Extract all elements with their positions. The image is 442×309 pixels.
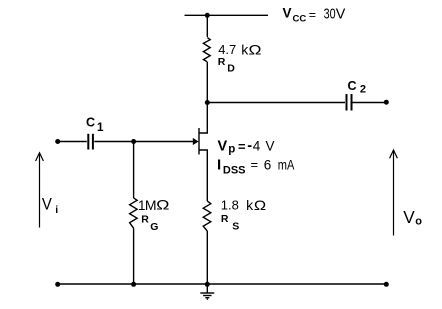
node drain junction bbox=[205, 100, 210, 105]
svg-text:V: V bbox=[218, 138, 228, 154]
label Vo bbox=[403, 207, 422, 227]
label IDSS = 6 mA bbox=[217, 157, 294, 177]
svg-text:S: S bbox=[232, 220, 239, 232]
transistor Q1 JFET channel bar bbox=[198, 128, 200, 155]
wire VCC to RD bbox=[206, 15, 208, 37]
wire RS to ground rail bbox=[206, 231, 208, 284]
svg-text:V: V bbox=[283, 6, 292, 21]
svg-text:C: C bbox=[86, 115, 95, 129]
svg-text:DSS: DSS bbox=[223, 165, 246, 177]
svg-text:mA: mA bbox=[278, 158, 295, 173]
svg-text:V: V bbox=[403, 207, 415, 227]
svg-text:V: V bbox=[266, 138, 275, 153]
svg-text:V: V bbox=[42, 195, 52, 213]
svg-text:Ω: Ω bbox=[254, 197, 266, 213]
node VCC junction bbox=[205, 13, 210, 18]
svg-text:M: M bbox=[145, 197, 157, 213]
node input terminal bbox=[55, 139, 60, 144]
svg-text:2: 2 bbox=[360, 84, 366, 96]
resistor RG bbox=[130, 198, 138, 228]
svg-text:C: C bbox=[348, 79, 357, 93]
svg-text:k: k bbox=[246, 197, 254, 213]
wire bottom ground rail bbox=[58, 283, 387, 285]
svg-text:D: D bbox=[227, 63, 235, 75]
wire C1 to gate bbox=[94, 141, 193, 143]
svg-text:V: V bbox=[336, 6, 346, 23]
svg-text:R: R bbox=[218, 56, 226, 68]
label C1 designator bbox=[86, 115, 104, 134]
node bottom RG junction bbox=[131, 282, 136, 287]
transistor Q1 JFET drain lead bbox=[199, 103, 207, 134]
transistor Q1 JFET source lead bbox=[199, 150, 207, 201]
wire input to C1 bbox=[58, 141, 87, 143]
svg-text:4: 4 bbox=[253, 138, 261, 153]
arrow Vo output indicator bbox=[390, 150, 398, 236]
node output terminal bbox=[384, 100, 389, 105]
wire RG to ground rail bbox=[133, 228, 135, 284]
svg-text:o: o bbox=[415, 216, 422, 228]
label RD designator bbox=[218, 56, 236, 75]
svg-text:CC: CC bbox=[293, 14, 307, 25]
svg-text:Ω: Ω bbox=[249, 41, 262, 57]
wire RD to drain node bbox=[206, 62, 208, 103]
label Vi bbox=[42, 195, 58, 216]
svg-text:6: 6 bbox=[264, 158, 272, 173]
svg-text:-: - bbox=[247, 138, 252, 154]
arrow Vi input indicator bbox=[36, 153, 44, 228]
label VCC = 30 V bbox=[283, 6, 346, 25]
svg-text:1.8: 1.8 bbox=[221, 198, 239, 213]
node bottom left terminal bbox=[55, 282, 60, 287]
svg-text:p: p bbox=[228, 143, 235, 155]
node bottom right terminal bbox=[384, 282, 389, 287]
svg-text:i: i bbox=[55, 204, 58, 216]
svg-text:=: = bbox=[238, 139, 246, 154]
label RS designator bbox=[221, 213, 239, 232]
ground symbol bbox=[200, 284, 214, 299]
capacitor C2 bbox=[347, 94, 352, 111]
svg-text:30: 30 bbox=[324, 6, 336, 23]
resistor RS bbox=[203, 201, 211, 231]
label RG designator bbox=[141, 213, 158, 232]
svg-text:R: R bbox=[141, 213, 149, 225]
wire top supply rail bbox=[185, 14, 269, 16]
transistor Q1 gate arrowhead bbox=[193, 138, 199, 145]
capacitor C1 bbox=[88, 134, 93, 150]
node gate junction bbox=[131, 139, 136, 144]
label Vp = -4 V bbox=[218, 138, 275, 155]
label C2 designator bbox=[348, 79, 367, 95]
svg-text:4.7: 4.7 bbox=[218, 42, 236, 57]
svg-text:Ω: Ω bbox=[156, 197, 169, 213]
node bottom ground junction bbox=[205, 282, 210, 287]
wire gate junction to RG bbox=[133, 142, 135, 199]
svg-text:G: G bbox=[150, 221, 158, 233]
resistor RD bbox=[203, 38, 210, 62]
svg-text:1: 1 bbox=[97, 120, 104, 134]
wire C2 to output terminal bbox=[353, 102, 387, 104]
svg-text:I: I bbox=[217, 157, 221, 174]
svg-text:R: R bbox=[221, 213, 229, 225]
svg-text:=: = bbox=[309, 8, 316, 22]
wire drain node to C2 bbox=[207, 102, 345, 104]
svg-text:=: = bbox=[251, 157, 259, 172]
